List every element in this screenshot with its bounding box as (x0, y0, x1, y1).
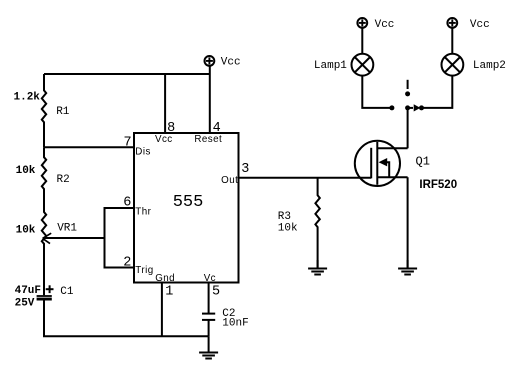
svg-text:Vcc: Vcc (470, 19, 490, 31)
switch SW changeover (389, 80, 424, 112)
svg-text:Out: Out (221, 175, 238, 186)
svg-text:3: 3 (241, 162, 249, 177)
svg-text:47uF: 47uF (15, 285, 41, 297)
svg-text:R3: R3 (278, 211, 291, 223)
svg-text:R1: R1 (56, 106, 70, 118)
lamp Lamp1 (352, 54, 374, 76)
polarity plus C1 (46, 285, 54, 293)
wire Thr-Trig tie bracket (105, 208, 135, 268)
ground bottom center (199, 336, 218, 358)
svg-text:Gnd: Gnd (155, 273, 175, 284)
resistor R1 (42, 74, 46, 147)
wire C2 to ground junction (208, 320, 210, 336)
svg-text:Lamp1: Lamp1 (314, 60, 347, 72)
wire source down to ground (407, 177, 409, 268)
transistor Q1 MOSFET (355, 141, 408, 186)
resistor R3 (315, 178, 319, 268)
svg-text:C1: C1 (60, 286, 74, 298)
svg-text:10k: 10k (16, 165, 36, 177)
svg-text:10k: 10k (278, 222, 298, 234)
wire C1 to bottom ground rail (44, 301, 209, 337)
svg-text:10k: 10k (16, 224, 36, 236)
svg-text:Vc: Vc (204, 273, 216, 284)
capacitor C2 (202, 314, 215, 320)
power Vcc symbol Lamp1 (357, 18, 367, 28)
svg-text:Dis: Dis (135, 146, 151, 157)
svg-text:6: 6 (123, 195, 131, 210)
resistor R2 (42, 147, 46, 203)
wire Vcc symbol down to pin 4 (209, 66, 211, 133)
svg-text:R2: R2 (57, 174, 70, 186)
svg-text:5: 5 (212, 285, 220, 300)
svg-text:Q1: Q1 (416, 155, 430, 169)
wire Vcc to Lamp2 (451, 28, 453, 54)
svg-text:7: 7 (123, 136, 131, 151)
svg-text:4: 4 (213, 121, 221, 136)
lamp Lamp2 (442, 54, 464, 76)
wire pin 8 stub to top rail (164, 74, 166, 133)
svg-text:Lamp2: Lamp2 (473, 60, 506, 72)
svg-text:10nF: 10nF (222, 317, 248, 329)
svg-text:2: 2 (123, 256, 131, 271)
wire R1-R2 junction to pin 7 Dis (44, 146, 134, 148)
svg-text:Thr: Thr (135, 206, 151, 217)
svg-text:8: 8 (167, 121, 175, 136)
power Vcc symbol top (205, 56, 215, 66)
svg-text:1.2k: 1.2k (14, 91, 41, 103)
svg-text:Trig: Trig (135, 265, 153, 276)
IC 555 body (134, 133, 239, 283)
power Vcc symbol Lamp2 (447, 18, 457, 28)
svg-text:VR1: VR1 (57, 223, 77, 235)
wire pin 5 Vc stub down (208, 283, 210, 314)
svg-text:1: 1 (165, 285, 173, 300)
svg-text:Vcc: Vcc (375, 19, 395, 31)
svg-text:Vcc: Vcc (221, 57, 241, 69)
wire pin 3 Out to MOSFET gate (239, 177, 372, 179)
wire Lamp1 to switch left contact (362, 75, 392, 108)
capacitor C1 (37, 296, 52, 301)
wire drain up to switch (407, 108, 409, 148)
potentiometer VR1 (42, 203, 105, 295)
wire top Vcc rail (44, 73, 210, 75)
svg-text:555: 555 (173, 193, 204, 212)
wire Vcc to Lamp1 (361, 28, 363, 54)
svg-text:IRF520: IRF520 (419, 179, 457, 191)
svg-text:25V: 25V (15, 298, 35, 310)
ground Q1 source (398, 260, 417, 275)
wire switch right contact to Lamp2 (422, 75, 453, 108)
ground R3 (308, 260, 327, 275)
wire pin 1 Gnd stub down (161, 283, 163, 337)
